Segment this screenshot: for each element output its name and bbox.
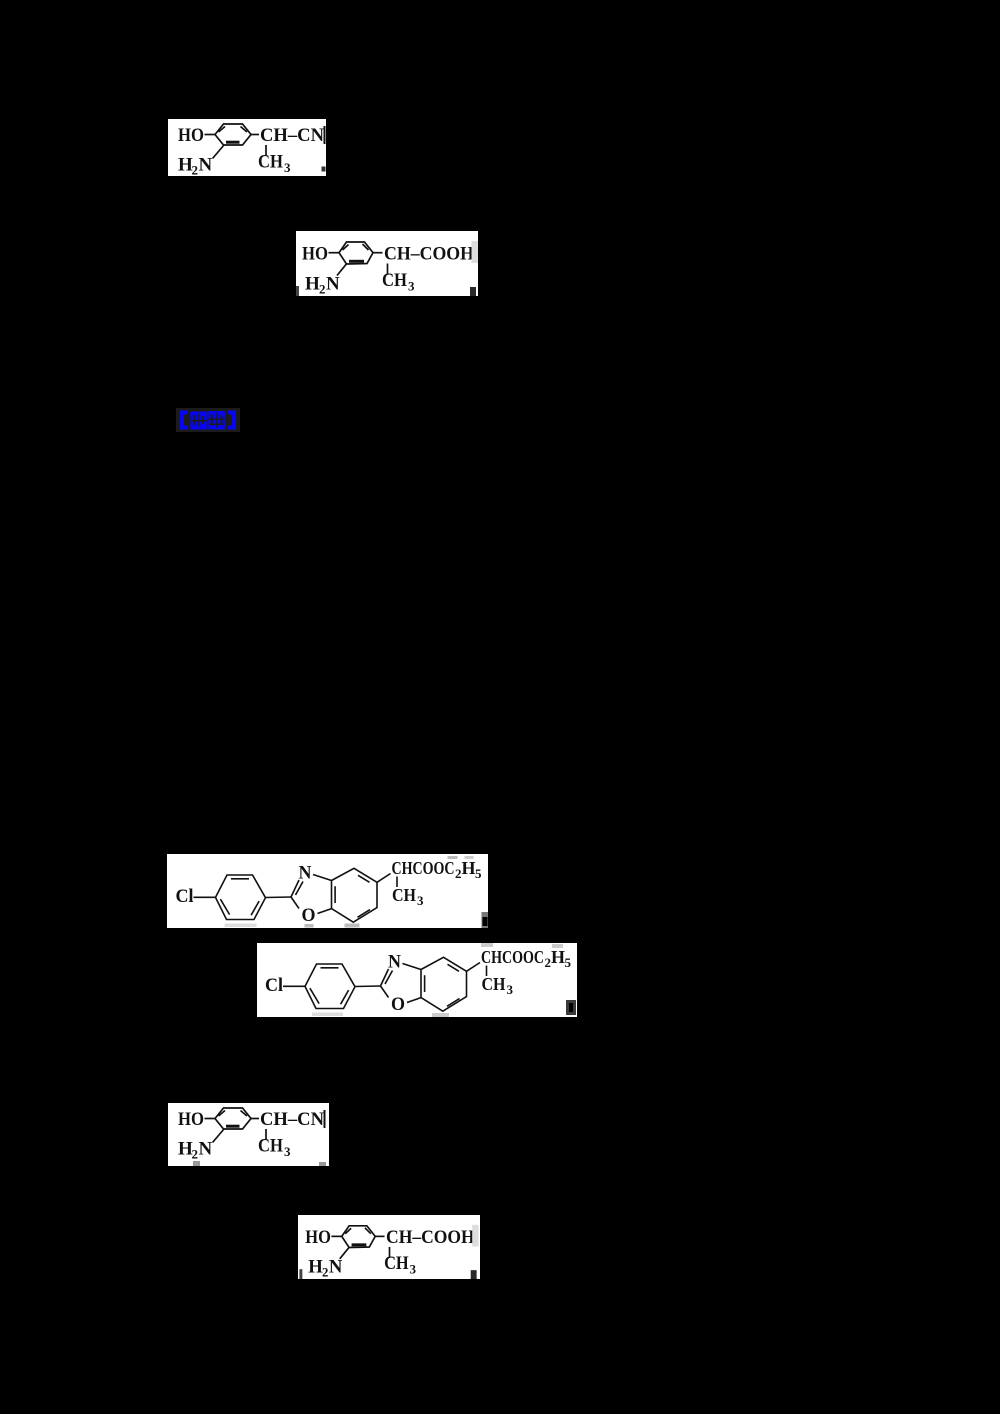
svg-text:5: 5	[565, 955, 572, 970]
double bond bottom bar	[226, 141, 240, 144]
bond CH-CH3	[265, 145, 267, 156]
svg-text:3: 3	[410, 1263, 416, 1277]
bond ring-C2	[355, 985, 381, 988]
fused benzene ring	[332, 868, 378, 922]
gray artifact under C7	[345, 924, 360, 928]
svg-text:H: H	[308, 1257, 323, 1278]
chlorophenyl ring	[305, 964, 355, 1009]
svg-text:2: 2	[192, 1147, 199, 1162]
svg-text:5: 5	[475, 866, 482, 881]
dark mark bottom left edge	[296, 286, 299, 296]
bond HO-ring	[205, 1118, 216, 1120]
gray artifacts top right	[448, 856, 458, 859]
svg-text:O: O	[391, 994, 405, 1015]
svg-text:3: 3	[507, 982, 514, 997]
bond ring-NH2	[213, 145, 225, 159]
double bond bottom bar	[352, 1243, 367, 1246]
svg-text:Cl: Cl	[176, 886, 194, 907]
dark comma bottom right	[566, 1000, 576, 1015]
bond O-C7a	[318, 909, 332, 914]
gray artifact bottom	[225, 924, 257, 928]
svg-text:N: N	[326, 274, 340, 295]
svg-text:HO: HO	[305, 1227, 331, 1248]
structure A2: 2-(3-amino-4-hydroxyphenyl)propanenitrile	[168, 1103, 329, 1166]
double bond lower-left	[220, 899, 229, 914]
structure B1: 2-(3-amino-4-hydroxyphenyl)propanoic acid	[296, 231, 478, 296]
bond ring-CH	[251, 134, 259, 136]
structure A1: 2-(3-amino-4-hydroxyphenyl)propanenitrile	[168, 119, 326, 176]
gray artifact under O	[305, 924, 314, 928]
double bond tick top-left	[219, 127, 226, 133]
bond C2-O	[381, 986, 389, 998]
svg-text:HO: HO	[178, 1109, 204, 1130]
bond C5-CH	[467, 963, 481, 972]
glyph stroke gaps	[194, 415, 196, 425]
bond CH-CH3	[486, 966, 488, 977]
benzene ring	[339, 242, 373, 264]
bond ring-CH	[375, 1235, 384, 1237]
double bond tick top-left	[343, 245, 349, 251]
double bond lower-right	[251, 901, 259, 915]
svg-text:3: 3	[417, 893, 424, 908]
dark comma bottom right	[471, 1270, 477, 1279]
double bond C4=C5	[358, 875, 370, 882]
dark comma bottom right	[470, 287, 476, 296]
svg-text:N: N	[199, 155, 213, 176]
bond C5-CH	[377, 874, 391, 883]
double bond bottom bar	[226, 1125, 240, 1128]
svg-text:CH: CH	[384, 1253, 409, 1274]
double bond top	[231, 878, 249, 880]
double bond C6=C7	[447, 999, 460, 1007]
bond CH-CH3	[396, 877, 398, 888]
svg-text:CH: CH	[382, 270, 407, 291]
double bond tick top-left	[345, 1228, 351, 1233]
ink dot bottom right	[322, 167, 326, 172]
light gray artifact right edge	[472, 241, 479, 263]
structure B2: 2-(3-amino-4-hydroxyphenyl)propanoic acid	[298, 1215, 480, 1279]
dark comma bottom right	[482, 912, 489, 928]
bond N-C3a	[313, 875, 332, 881]
left bracket	[180, 411, 188, 430]
C2=N double bond	[381, 969, 389, 986]
bond CH-CH3	[388, 1247, 390, 1258]
svg-text:H: H	[551, 947, 565, 967]
svg-text:N: N	[299, 863, 312, 884]
svg-text:CHCOOC: CHCOOC	[392, 858, 455, 878]
svg-text:3: 3	[284, 1144, 291, 1159]
fused benzene ring	[421, 957, 467, 1011]
svg-text:CH: CH	[258, 152, 283, 173]
gray artifact under phenyl ring	[312, 1013, 343, 1017]
double bond lower-right	[341, 990, 349, 1004]
bond HO-ring	[329, 252, 340, 254]
bond O-C7a	[407, 998, 421, 1003]
svg-text:CH–CN: CH–CN	[260, 125, 324, 146]
svg-text:CH: CH	[258, 1136, 283, 1157]
text cursor bar	[324, 1110, 326, 1128]
dark mark bottom left edge	[299, 1269, 302, 1279]
bond CH-CH3	[265, 1129, 267, 1140]
benzene ring	[342, 1226, 375, 1248]
bond Cl-ring	[283, 985, 305, 987]
structure C: ethyl 2-[2-(4-chlorophenyl)benzoxazol-5-yl]propanoate	[167, 854, 488, 928]
svg-text:HO: HO	[302, 244, 328, 265]
bond CH-CH3	[387, 264, 389, 275]
benzene ring	[215, 1108, 251, 1129]
bond ring-NH2	[340, 1247, 349, 1259]
benzene ring	[215, 124, 251, 145]
structure D: ethyl 2-[2-(4-chlorophenyl)benzoxazol-5-yl]propanoate	[257, 943, 577, 1017]
bond C2-O	[291, 897, 299, 909]
C2=N double bond	[291, 880, 299, 897]
light gray artifact right edge	[472, 1225, 478, 1247]
bond ring-CH	[251, 1118, 259, 1120]
svg-text:HO: HO	[178, 125, 204, 146]
gray artifacts top edge	[481, 943, 493, 947]
svg-text:2: 2	[319, 282, 326, 297]
svg-text:CH: CH	[482, 974, 506, 994]
double bond C3a=C7a	[424, 975, 426, 992]
blue heading box [jie da]	[176, 408, 240, 432]
svg-text:O: O	[302, 905, 316, 926]
svg-text:CH–CN: CH–CN	[260, 1109, 324, 1130]
bond ring-C2	[266, 896, 292, 899]
double bond C3a=C7a	[334, 886, 336, 903]
double bond C6=C7	[358, 910, 371, 918]
double bond bottom bar	[349, 260, 364, 263]
svg-text:H: H	[305, 274, 320, 295]
gray artifact bottom	[432, 1013, 449, 1017]
svg-text:N: N	[329, 1257, 343, 1278]
double bond tick top-right	[241, 127, 248, 133]
bond N-C3a	[403, 964, 422, 970]
glyph 2	[209, 411, 226, 430]
svg-text:H: H	[462, 858, 476, 878]
double bond tick top-left	[219, 1111, 226, 1117]
svg-text:2: 2	[322, 1266, 328, 1279]
svg-text:CH: CH	[392, 885, 416, 905]
bond ring-NH2	[213, 1129, 225, 1143]
bond Cl-ring	[194, 896, 216, 898]
svg-text:CHCOOC: CHCOOC	[481, 947, 544, 967]
svg-text:CH–COOH: CH–COOH	[384, 244, 474, 265]
chlorophenyl ring	[216, 875, 266, 920]
svg-text:3: 3	[408, 279, 415, 294]
text cursor bar	[324, 126, 326, 144]
bond HO-ring	[331, 1235, 341, 1237]
bond HO-ring	[205, 134, 216, 136]
double bond C4=C5	[448, 964, 460, 971]
double bond top	[321, 967, 339, 969]
double bond tick top-right	[363, 244, 369, 250]
bond ring-CH	[373, 252, 383, 254]
double bond tick top-right	[241, 1111, 248, 1117]
svg-text:Cl: Cl	[265, 975, 283, 996]
svg-text:CH–COOH: CH–COOH	[386, 1227, 475, 1248]
bond ring-NH2	[337, 264, 347, 276]
glyph 1	[191, 412, 208, 430]
svg-text:2: 2	[192, 163, 199, 177]
svg-text:3: 3	[284, 160, 291, 175]
ink dot bottom right	[193, 1161, 200, 1166]
svg-text:N: N	[388, 952, 401, 973]
double bond lower-left	[310, 988, 319, 1003]
svg-text:N: N	[199, 1139, 213, 1160]
right bracket	[228, 411, 236, 430]
double bond tick top-right	[365, 1228, 371, 1234]
